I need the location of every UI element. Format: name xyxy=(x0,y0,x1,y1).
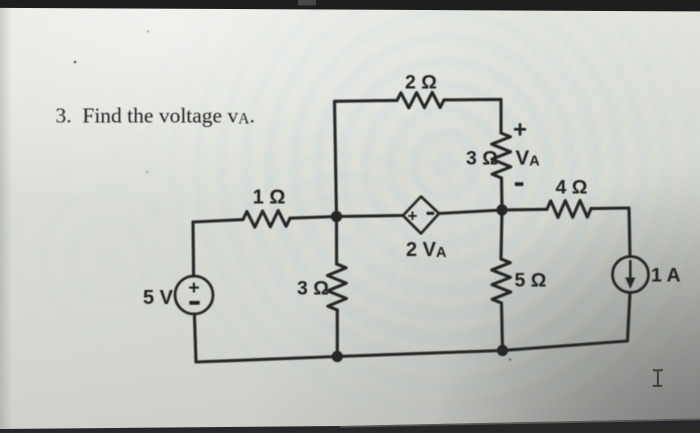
dust speck xyxy=(146,171,148,173)
svg-text:+: + xyxy=(513,117,527,144)
svg-text:+: + xyxy=(408,207,418,226)
resistor R 3ohm (upper, voltage VA across) xyxy=(492,133,511,178)
text I-beam cursor xyxy=(653,369,663,386)
top dark bar xyxy=(0,0,700,11)
svg-text:4 Ω: 4 Ω xyxy=(556,177,588,199)
svg-text:2 Ω: 2 Ω xyxy=(405,72,437,94)
resistor R 2ohm zigzag xyxy=(397,92,444,108)
svg-text:5 V: 5 V xyxy=(143,287,174,309)
wire: diamond to node B xyxy=(439,210,502,214)
wire: node B to 4ohm xyxy=(502,208,547,212)
dependent source 2VA diamond xyxy=(403,197,439,234)
dust speck xyxy=(509,358,511,360)
junction bottom-right xyxy=(497,345,508,356)
svg-text:+: + xyxy=(188,277,199,299)
svg-text:1 A: 1 A xyxy=(651,265,681,287)
title: problem statement xyxy=(56,103,255,127)
label - inside diamond xyxy=(427,212,435,215)
wire: middle wire far-left segment xyxy=(193,220,243,222)
current source arrow (down) xyxy=(629,260,632,281)
wire: bottom wire middle segment xyxy=(337,351,502,357)
resistor R 5ohm branch: top wire xyxy=(501,210,502,259)
svg-text:VA: VA xyxy=(516,147,541,170)
wire: 1A source to bottom-right corner xyxy=(503,293,631,351)
svg-text:1 Ω: 1 Ω xyxy=(253,187,286,209)
voltage source 5V: wire above xyxy=(191,222,195,276)
wire: top-left vertical of upper loop xyxy=(335,100,398,216)
label - inside 5V xyxy=(189,301,199,305)
dust speck xyxy=(147,31,149,33)
resistor R 3ohm (lower) branch top wire xyxy=(335,217,338,265)
resistor R 1ohm zigzag xyxy=(243,211,290,228)
svg-text:2 VA: 2 VA xyxy=(406,239,447,261)
svg-text:5 Ω: 5 Ω xyxy=(515,270,547,292)
junction node B (middle wire right) xyxy=(496,204,507,215)
resistor R 4ohm zigzag xyxy=(547,200,591,217)
bottom dark bar xyxy=(0,419,700,433)
wire: 5V to bottom-left corner xyxy=(194,314,337,362)
resistor R 3ohm (lower) zigzag xyxy=(327,264,346,310)
wire: from 3ohm down to middle node xyxy=(500,178,504,210)
svg-text:3 Ω: 3 Ω xyxy=(297,278,329,300)
wire: 4ohm to top-right corner xyxy=(591,208,630,257)
resistor R 5ohm zigzag xyxy=(492,259,511,303)
current source 1A circle xyxy=(613,257,649,293)
wire: middle wire to node A junction and diamond xyxy=(290,216,403,219)
voltage source 5V circle xyxy=(175,276,213,314)
junction bottom-left xyxy=(332,351,343,362)
svg-text:3 Ω: 3 Ω xyxy=(466,148,498,170)
svg-text:3. Find the voltage vA.: 3. Find the voltage vA. xyxy=(56,103,255,127)
dust speck xyxy=(74,61,77,64)
label - of VA xyxy=(515,182,524,186)
wire: lower 3ohm to bottom junction xyxy=(336,310,339,357)
wire: 5ohm to bottom junction xyxy=(502,303,503,351)
junction node A (middle wire left) xyxy=(331,211,342,222)
wire: top wire right segment xyxy=(444,99,501,133)
